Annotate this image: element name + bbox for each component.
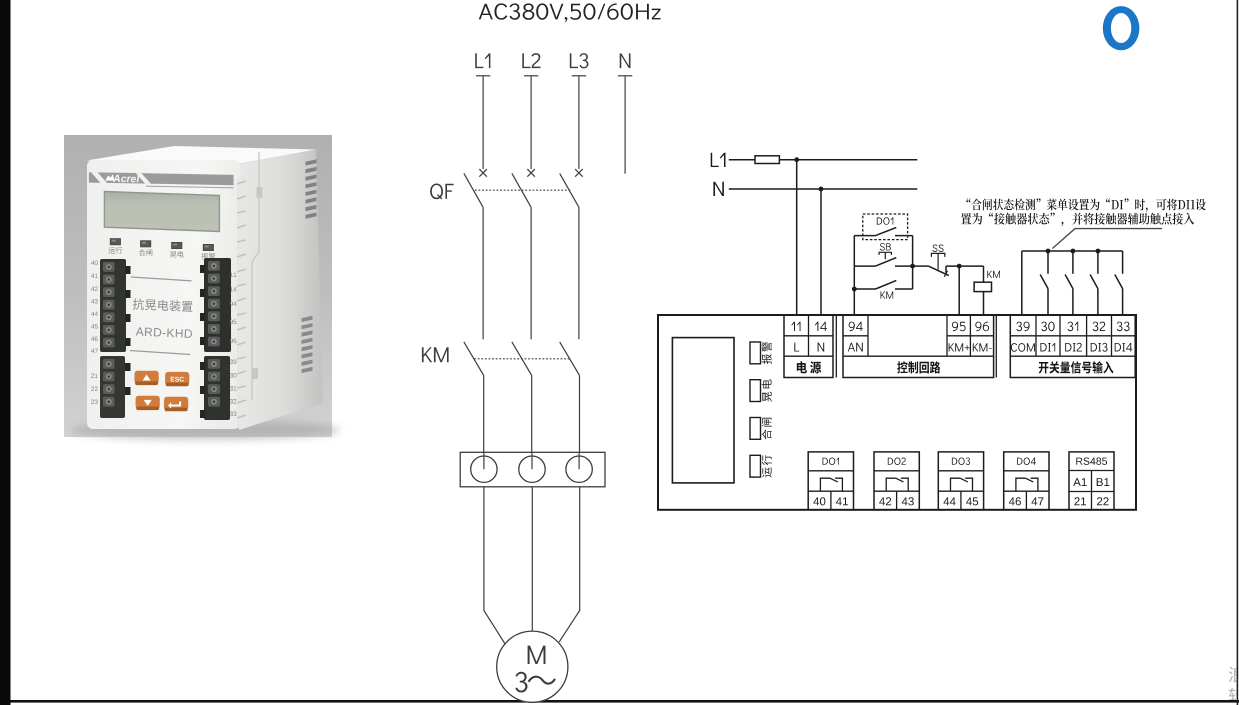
DO3 label bbox=[952, 458, 970, 466]
DI4 contact blade bbox=[1115, 275, 1123, 289]
product photo background bbox=[64, 135, 332, 437]
terminal group box control circuit bbox=[843, 315, 994, 378]
terminal printed numbers right bbox=[230, 273, 236, 277]
DO4 relay contact symbol bbox=[1016, 478, 1026, 491]
device outline box bbox=[658, 315, 1136, 510]
side face crease line bbox=[252, 152, 259, 400]
DO1 contact blade bbox=[876, 227, 897, 235]
device top face bbox=[87, 146, 316, 164]
KM coil label bbox=[987, 271, 1000, 278]
terminal 31 bbox=[1068, 322, 1079, 332]
DO1 relay contact symbol bbox=[820, 478, 830, 491]
annotation leader line bbox=[1052, 229, 1162, 249]
node label L1 bbox=[475, 53, 490, 68]
wire DI4 to terminal bbox=[1122, 289, 1124, 315]
DO1 label bbox=[823, 458, 840, 466]
panel LED 晃电 bbox=[172, 242, 182, 248]
terminal 33 bbox=[1117, 322, 1130, 332]
junction DI3 on bus bbox=[1096, 249, 1101, 254]
terminal N bbox=[818, 343, 825, 352]
CT primary wire stub 1 bbox=[483, 452, 485, 469]
right bus wire bbox=[912, 236, 914, 289]
DI1 contact blade bbox=[1040, 275, 1048, 289]
contactor KM pole blade 3 bbox=[560, 342, 580, 376]
wire KM coil to terminal 96 KM- bbox=[983, 292, 985, 315]
annotation text line 2 bbox=[961, 213, 1194, 227]
Acrel logo text bbox=[113, 174, 139, 182]
QF fixed contact cross L2 bbox=[527, 169, 535, 177]
contactor KM linkage dotted bar bbox=[474, 358, 570, 360]
indicator LED 报警 bbox=[750, 342, 761, 364]
terminal 14 bbox=[815, 322, 827, 331]
contactor KM pole blade 1 bbox=[464, 342, 484, 376]
wire DI2 to terminal bbox=[1072, 289, 1074, 315]
terminal block lower-left bbox=[100, 356, 125, 418]
terminal 21 bbox=[1074, 497, 1086, 505]
SB actuator bracket bbox=[879, 252, 891, 255]
panel LED 合闸 bbox=[141, 241, 151, 247]
SS contact lead from SB junction bbox=[913, 265, 929, 267]
terminal 44 bbox=[944, 497, 956, 505]
wire to terminal 11 bbox=[796, 160, 798, 315]
terminal 42 bbox=[879, 497, 891, 505]
junction N to terminal 14 bbox=[819, 187, 824, 192]
left black margin bar bbox=[0, 0, 11, 705]
SS actuator bracket bbox=[931, 253, 944, 257]
terminal 46 bbox=[1009, 497, 1021, 505]
node label L3 bbox=[570, 53, 589, 68]
wire to terminal 95 KM+ bbox=[958, 266, 960, 315]
QF fixed contact cross L1 bbox=[479, 169, 487, 177]
terminal 22 bbox=[1097, 497, 1109, 505]
CT ring 1 bbox=[471, 456, 497, 482]
terminal group box digital inputs bbox=[1010, 315, 1135, 378]
junction right bus at SB row bbox=[910, 264, 915, 269]
button esc bbox=[165, 372, 189, 385]
DO3 relay contact symbol bbox=[951, 478, 961, 491]
junction DI2 on bus bbox=[1071, 249, 1076, 254]
bottom rule line bbox=[11, 700, 1239, 703]
right edge rule line bbox=[1237, 0, 1239, 705]
terminal 41 bbox=[836, 497, 848, 505]
contactor KM label bbox=[422, 347, 449, 362]
wire QF to KM phase 2 bbox=[530, 207, 532, 339]
side face notch bbox=[257, 187, 263, 198]
wire L3 drop to QF bbox=[578, 76, 580, 169]
motor label M bbox=[528, 646, 546, 664]
wire bus to COM terminal 39 bbox=[1021, 251, 1023, 315]
group label power 电源 bbox=[797, 361, 821, 373]
left bus wire to terminal 94 bbox=[853, 236, 855, 315]
button ent bbox=[164, 397, 188, 410]
terminal block upper-right bbox=[204, 258, 231, 352]
terminal COM bbox=[1011, 343, 1035, 352]
device LCD screen bbox=[104, 192, 219, 232]
SB contact right lead bbox=[895, 265, 913, 267]
wire KM to CT phase 3 bbox=[579, 375, 581, 452]
device shadow bbox=[70, 420, 340, 440]
relay output DO1 dashed box bbox=[863, 214, 908, 240]
terminal 47 bbox=[1032, 497, 1044, 505]
wire DI1 to terminal bbox=[1047, 289, 1049, 315]
panel text ARD-KHD bbox=[136, 327, 193, 338]
wire N drop (unswitched) bbox=[624, 76, 626, 174]
N control wire bbox=[729, 188, 918, 190]
terminal 96 bbox=[975, 322, 989, 332]
motor M circle bbox=[497, 631, 568, 702]
DI1 contact top pin bbox=[1047, 251, 1049, 274]
wire CT to motor middle bbox=[531, 487, 533, 632]
wire QF to KM phase 3 bbox=[578, 207, 580, 339]
junction DI1 on bus bbox=[1046, 249, 1051, 254]
panel LED label 运行 bbox=[109, 247, 123, 254]
device front face bbox=[87, 160, 240, 429]
wire to terminal 14 bbox=[820, 189, 822, 315]
wire L1 drop to QF bbox=[482, 76, 484, 169]
junction L1 to terminal 11 bbox=[794, 157, 799, 162]
DI4 contact top pin bbox=[1122, 251, 1124, 274]
contactor coil KM bbox=[974, 282, 991, 291]
indicator label 报警 bbox=[762, 342, 772, 364]
KM aux contact right lead bbox=[895, 288, 913, 290]
DI3 contact top pin bbox=[1097, 251, 1099, 274]
terminal 43 bbox=[902, 497, 914, 505]
DO2 label bbox=[888, 458, 906, 466]
annotation text line 1 bbox=[966, 198, 1205, 212]
wire SS to KM coil branch bbox=[946, 265, 984, 267]
title AC380V,50/60Hz bbox=[479, 3, 661, 22]
SB actuator stem bbox=[884, 252, 886, 259]
CT ring 3 bbox=[566, 456, 592, 482]
terminal block lower-right bbox=[204, 356, 230, 420]
terminal 30 bbox=[1041, 322, 1054, 332]
terminal DI1 bbox=[1040, 343, 1055, 352]
watermark char 1 bbox=[1229, 666, 1239, 704]
contactor KM pole blade 2 bbox=[512, 342, 532, 376]
panel LED 运行 bbox=[110, 239, 120, 245]
panel text 抗晃电装置 bbox=[133, 298, 193, 312]
terminal AN bbox=[848, 343, 863, 352]
panel LED label 合闸 bbox=[139, 249, 153, 256]
terminal 39 bbox=[1016, 322, 1029, 332]
device LCD window bbox=[672, 338, 734, 483]
relay output box DO3 bbox=[938, 452, 983, 510]
button up bbox=[135, 371, 159, 384]
wire CT to motor left bbox=[484, 487, 505, 645]
current transformer box bbox=[460, 452, 605, 487]
terminal block side tabs bbox=[125, 266, 131, 274]
panel LED 报警 bbox=[203, 244, 213, 250]
supply terminal tick bbox=[524, 75, 538, 77]
node label N (control) bbox=[713, 182, 724, 196]
supply terminal tick bbox=[618, 75, 632, 77]
wire L2 drop to QF bbox=[530, 76, 532, 169]
CT ring 2 bbox=[519, 456, 545, 482]
breaker QF linkage dotted bar bbox=[475, 189, 571, 191]
blue letter O bbox=[1103, 6, 1140, 50]
panel separator line upper bbox=[131, 277, 192, 281]
terminal 95 bbox=[952, 322, 966, 332]
relay output box DO2 bbox=[874, 452, 919, 510]
L1 control wire bbox=[729, 159, 918, 161]
CT primary wire stub 3 bbox=[578, 452, 580, 469]
Acrel logo band bbox=[89, 172, 234, 185]
indicator label 晃电 bbox=[762, 379, 772, 401]
CT primary wire stub 2 bbox=[531, 452, 533, 469]
indicator LED 运行 bbox=[750, 455, 761, 477]
group label control 控制回路 bbox=[897, 361, 940, 373]
control group double-border line bbox=[995, 315, 997, 378]
SS actuator stem bbox=[937, 253, 939, 269]
button dn bbox=[136, 396, 160, 409]
wire CT to motor right bbox=[559, 487, 580, 642]
control group inner lines bbox=[843, 335, 868, 337]
DI3 contact blade bbox=[1090, 275, 1098, 289]
indicator label 合闸 bbox=[762, 418, 772, 440]
terminal KM- bbox=[973, 343, 992, 351]
terminal B1 bbox=[1097, 478, 1110, 486]
terminal DI4 bbox=[1115, 343, 1133, 352]
indicator label 运行 bbox=[762, 455, 772, 477]
node label N bbox=[620, 53, 631, 68]
DO1 label bbox=[877, 217, 894, 225]
breaker QF label bbox=[430, 184, 454, 200]
wire down to KM coil bbox=[983, 266, 985, 282]
SS right pin bbox=[945, 266, 947, 273]
relay output box DO1 bbox=[808, 452, 853, 510]
KM aux label bbox=[881, 291, 894, 298]
terminal KM+ bbox=[949, 343, 970, 351]
terminal 94 bbox=[849, 322, 863, 332]
terminal group box power bbox=[784, 315, 833, 378]
terminal 11 bbox=[791, 322, 800, 331]
watermark char 2 bbox=[1229, 688, 1239, 704]
node label L1 (control) bbox=[711, 153, 726, 167]
wire KM to CT phase 2 bbox=[531, 375, 533, 452]
supply terminal tick bbox=[476, 75, 490, 77]
DO1 contact right lead bbox=[895, 235, 913, 237]
node label L2 bbox=[522, 53, 540, 68]
terminal DI2 bbox=[1065, 343, 1082, 352]
indicator LED 晃电 bbox=[750, 380, 761, 402]
indicator LED 合闸 bbox=[750, 418, 761, 440]
motor label 3~ bbox=[515, 672, 527, 693]
SB contact left lead bbox=[854, 265, 875, 267]
power group inner lines bbox=[784, 335, 833, 337]
relay output box DO4 bbox=[1004, 452, 1049, 510]
terminal 45 bbox=[966, 497, 978, 505]
breaker QF pole blade 3 bbox=[560, 173, 579, 207]
fuse FU bbox=[755, 156, 779, 164]
terminal 40 bbox=[813, 497, 825, 505]
SB contact blade bbox=[876, 258, 897, 267]
terminal printed numbers left bbox=[91, 261, 98, 266]
side vents lower bbox=[302, 316, 313, 322]
device front-right ridge column bbox=[237, 178, 246, 428]
panel LED label 晃电 bbox=[170, 251, 184, 258]
DI group inner lines bbox=[1010, 335, 1135, 337]
terminal block upper-left bbox=[100, 259, 126, 352]
junction to terminal 95 bbox=[957, 264, 962, 269]
panel LED label 报警 bbox=[201, 253, 215, 260]
terminal L bbox=[794, 343, 799, 352]
device right side face bbox=[239, 149, 323, 430]
SS blade end tick bbox=[944, 271, 947, 277]
DO2 relay contact symbol bbox=[886, 478, 896, 491]
wire KM to CT phase 1 bbox=[483, 375, 485, 452]
junction left bus at KM row bbox=[852, 287, 857, 292]
breaker QF pole blade 2 bbox=[512, 173, 531, 207]
wire QF to KM phase 1 bbox=[482, 207, 484, 339]
RS485 comm box bbox=[1069, 452, 1114, 510]
DO1 contact left lead bbox=[854, 235, 875, 237]
RS485 label bbox=[1076, 458, 1107, 465]
supply terminal tick bbox=[572, 75, 586, 77]
switch SS label bbox=[932, 245, 943, 253]
DI common bus bbox=[1022, 250, 1123, 252]
group label DI 开关量信号输入 bbox=[1039, 361, 1114, 373]
KM aux contact blade bbox=[876, 280, 897, 289]
QF fixed contact cross L3 bbox=[575, 169, 583, 177]
breaker QF pole blade 1 bbox=[464, 173, 483, 207]
DO4 label bbox=[1017, 458, 1036, 466]
DI2 contact top pin bbox=[1072, 251, 1074, 274]
SS contact blade bbox=[928, 266, 948, 276]
terminal A1 bbox=[1073, 478, 1087, 486]
contactor aux contact KM left lead bbox=[854, 288, 875, 290]
DI2 contact blade bbox=[1065, 275, 1073, 289]
panel separator line lower bbox=[130, 351, 190, 355]
pushbutton SB label bbox=[880, 243, 891, 251]
terminal DI3 bbox=[1091, 343, 1108, 352]
terminal 32 bbox=[1093, 322, 1106, 332]
power group double-border line bbox=[835, 315, 837, 378]
wire DI3 to terminal bbox=[1097, 289, 1099, 315]
